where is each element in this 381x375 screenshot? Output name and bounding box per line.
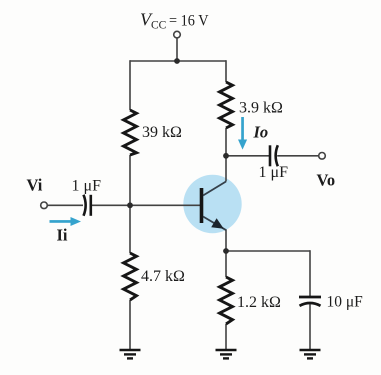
- wire emitter vertical: [225, 230, 227, 278]
- wire base: [91, 204, 200, 206]
- resistor RE 1.2k: [220, 277, 233, 324]
- svg-text:1 μF: 1 μF: [72, 178, 102, 195]
- svg-text:Io: Io: [253, 123, 269, 142]
- junction collector node: [223, 153, 229, 159]
- resistor R2 4.7k: [124, 253, 137, 300]
- svg-text:3.9 kΩ: 3.9 kΩ: [239, 100, 283, 117]
- junction emitter node: [223, 248, 229, 254]
- junction top node: [174, 58, 180, 64]
- node: output terminal circle Vo: [319, 153, 326, 160]
- svg-text:1 μF: 1 μF: [259, 164, 289, 181]
- wire left branch middle: [129, 155, 131, 253]
- wire output coupling left: [226, 155, 269, 157]
- wire emitter node horizontal: [226, 250, 310, 252]
- capacitor C1 input 1uF: [84, 195, 91, 216]
- ground G3 (right): [300, 350, 321, 358]
- wire output coupling right: [277, 155, 318, 157]
- capacitor C2 output 1uF: [270, 145, 278, 166]
- svg-text:1.2 kΩ: 1.2 kΩ: [237, 294, 281, 311]
- wire input terminal to capacitor: [47, 204, 83, 206]
- svg-text:CC: CC: [151, 20, 167, 32]
- junction base node: [127, 202, 133, 208]
- resistor R1 39k: [124, 110, 137, 155]
- transistor Q1 highlight circle: [183, 175, 241, 233]
- wire right branch upper: [225, 60, 227, 82]
- ground G1 (left): [120, 350, 141, 358]
- wire emitter resistor to ground: [225, 324, 227, 349]
- svg-text:Vo: Vo: [317, 171, 336, 190]
- wire VCC terminal to top node: [176, 38, 178, 61]
- svg-text:10 μF: 10 μF: [327, 294, 364, 311]
- wire bypass branch upper: [309, 250, 311, 296]
- svg-text:Vi: Vi: [27, 176, 43, 195]
- arrow Ii (blue, right): [50, 217, 82, 226]
- transistor Q1 symbol: [202, 182, 227, 231]
- resistor RC 3.9k: [220, 82, 233, 128]
- node: input terminal circle Vi: [41, 202, 48, 209]
- svg-text:39 kΩ: 39 kΩ: [142, 124, 182, 141]
- wire left branch upper: [129, 60, 131, 110]
- ground G2 (middle): [216, 350, 237, 358]
- capacitor CE bypass 10uF: [299, 297, 321, 306]
- arrow Io (blue, down): [238, 117, 247, 150]
- wire right branch collector: [225, 128, 227, 182]
- svg-text:Ii: Ii: [57, 225, 68, 244]
- wire bypass branch lower: [309, 304, 311, 349]
- wire left branch lower to ground: [129, 300, 131, 349]
- svg-text:4.7 kΩ: 4.7 kΩ: [141, 268, 185, 285]
- wire top horizontal: [130, 60, 226, 62]
- node: VCC terminal circle: [174, 31, 181, 38]
- svg-text:= 16 V: = 16 V: [169, 12, 209, 29]
